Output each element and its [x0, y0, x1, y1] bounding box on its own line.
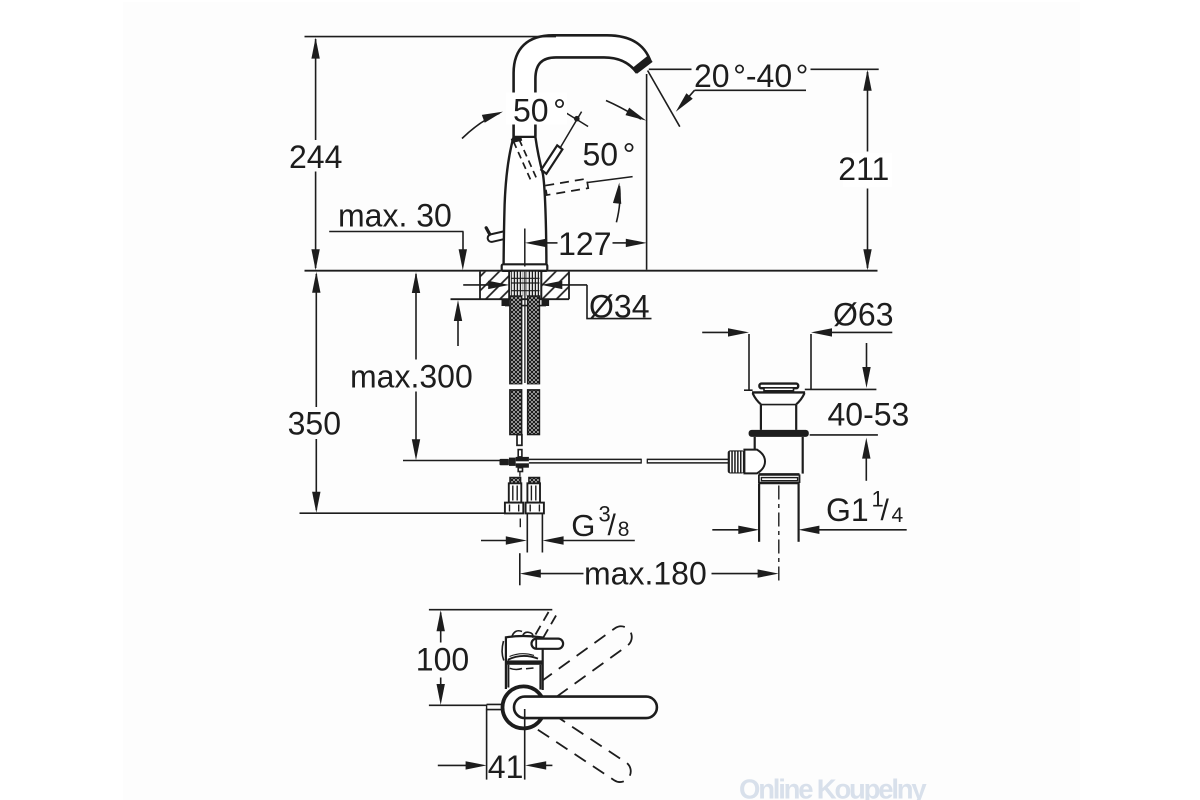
svg-text:Online Koupelny: Online Koupelny	[739, 774, 927, 800]
svg-text:8: 8	[618, 518, 630, 541]
svg-text:350: 350	[288, 406, 341, 442]
svg-text:G1: G1	[826, 492, 869, 528]
svg-text:Ø63: Ø63	[833, 296, 893, 332]
svg-text:41: 41	[488, 749, 524, 785]
svg-text:max.180: max.180	[584, 556, 707, 592]
svg-text:211: 211	[838, 151, 889, 187]
svg-text:4: 4	[892, 504, 904, 527]
svg-text:50°: 50°	[583, 137, 636, 173]
svg-text:Ø34: Ø34	[589, 289, 649, 325]
svg-text:50°: 50°	[513, 92, 566, 128]
svg-text:/: /	[881, 494, 890, 527]
svg-text:244: 244	[289, 139, 342, 175]
svg-text:/: /	[608, 509, 617, 542]
svg-text:max.300: max.300	[350, 359, 473, 395]
svg-text:40-53: 40-53	[828, 397, 910, 433]
svg-text:127: 127	[558, 226, 611, 262]
svg-text:20°-40°: 20°-40°	[694, 58, 808, 94]
svg-text:100: 100	[416, 642, 469, 678]
svg-text:G: G	[571, 508, 595, 543]
svg-text:max. 30: max. 30	[338, 198, 452, 234]
